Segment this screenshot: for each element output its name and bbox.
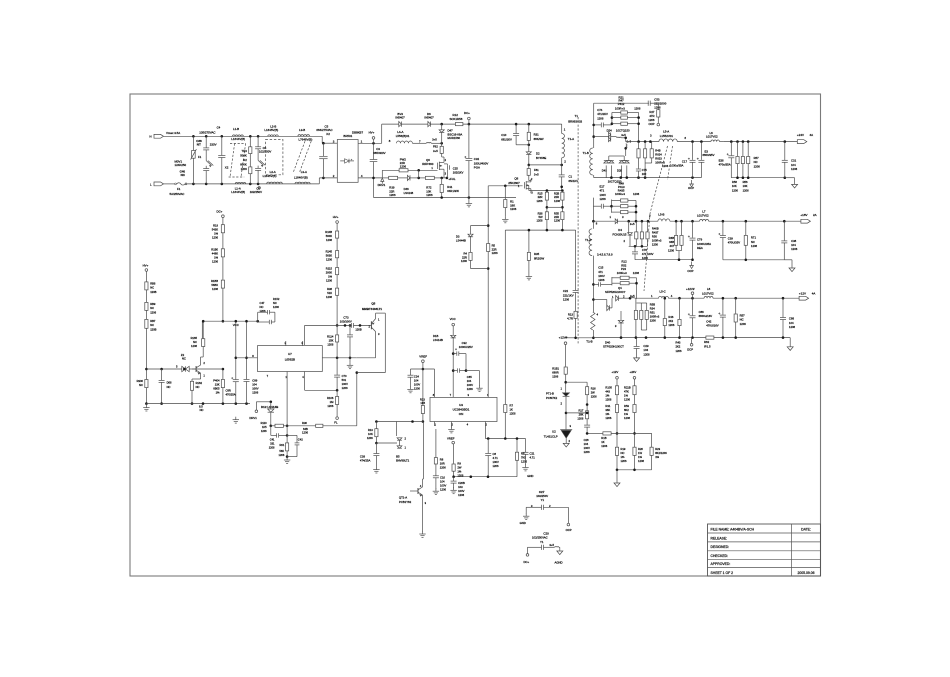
winding T1-B (590, 148, 593, 175)
svg-text:BR501: BR501 (343, 134, 352, 138)
capacitor C74 (601, 123, 603, 128)
wire sense return (505, 229, 575, 231)
node D47 top (440, 123, 443, 126)
wire C39 top (722, 221, 724, 235)
wire (641, 221, 643, 232)
wire pin1 drop (286, 372, 288, 426)
wire P404 bottom (222, 388, 224, 404)
wire (616, 470, 618, 483)
label R19b (212, 224, 219, 240)
label E36 (719, 158, 731, 166)
svg-text:1000u/35A: 1000u/35A (670, 163, 684, 167)
wire (468, 198, 470, 201)
wire (644, 142, 646, 149)
junction (678, 258, 681, 261)
label pins T1-C (597, 252, 613, 256)
svg-text:OCP: OCP (688, 186, 694, 190)
ground bl (284, 457, 290, 463)
wire Q5 emitter down (375, 332, 377, 358)
label C53 (654, 98, 666, 110)
wire C31 bottom (784, 162, 786, 177)
wire (466, 370, 480, 372)
connector N (0, 0, 1, 1)
svg-text:C85: C85 (467, 375, 472, 379)
svg-text:RB9: RB9 (150, 302, 156, 306)
label L3-A part (294, 176, 308, 180)
svg-text:120B: 120B (150, 327, 156, 331)
wire (396, 422, 398, 437)
label 100R+3 (615, 106, 625, 110)
label R68 (668, 236, 674, 253)
inductor L5-B (658, 219, 670, 221)
capacitor C3 (370, 160, 378, 162)
label R36b (326, 287, 332, 299)
svg-text:DC+: DC+ (464, 111, 470, 115)
wire F82 top (441, 143, 443, 146)
pin 2 T1 (564, 160, 566, 164)
wire (647, 221, 649, 232)
junction (235, 357, 238, 360)
label Q6 (426, 158, 430, 162)
svg-text:104: 104 (440, 480, 445, 484)
label L1-B (233, 127, 239, 131)
wire (258, 311, 268, 313)
wire R9 bottom (453, 471, 455, 477)
diode BV3 (399, 122, 402, 127)
wire (634, 254, 636, 260)
svg-text:R6B: R6B (669, 236, 674, 240)
label D43 part (608, 180, 622, 184)
wire (616, 379, 618, 386)
terminal +12V# (564, 342, 567, 345)
resistor R9 (452, 464, 455, 471)
connector N tag (154, 134, 164, 138)
wire (635, 221, 637, 232)
wire bleeder mid (249, 154, 251, 167)
svg-text:R51: R51 (650, 311, 655, 315)
wire R35 bottom (528, 260, 530, 273)
wire (258, 321, 270, 323)
resistor R15 (545, 192, 548, 200)
label C20 Y1 (540, 540, 544, 544)
fusible 3+5 b (626, 144, 627, 148)
svg-text:102/1KV: 102/1KV (453, 171, 464, 175)
OCP arrow 18V (690, 262, 694, 269)
junction (470, 475, 473, 478)
wire D66 top (161, 369, 163, 380)
wire (675, 221, 677, 235)
wire D66 bottom (161, 382, 163, 403)
resistor R023 (650, 149, 653, 158)
wire 18V out (709, 220, 801, 222)
resistor R13A (574, 311, 577, 318)
label R7 (510, 403, 516, 415)
wire (191, 379, 193, 381)
svg-text:36K: 36K (605, 408, 610, 412)
fusible 3+5 d (555, 546, 559, 549)
wire (645, 162, 652, 164)
svg-text:L1644V(B): L1644V(B) (231, 190, 245, 194)
svg-text:NC: NC (196, 385, 200, 389)
wire C32 bottom (468, 161, 470, 198)
svg-text:1206: 1206 (605, 397, 611, 401)
label D24 (607, 128, 613, 132)
junction (504, 437, 507, 440)
label C20 (543, 531, 549, 535)
svg-text:C28: C28 (584, 438, 589, 442)
label R115 (326, 267, 333, 283)
label C70 (342, 374, 348, 390)
resistor R43 (678, 319, 681, 325)
label R17 (577, 409, 583, 421)
wire (422, 478, 425, 480)
svg-text:D12 LS414B: D12 LS414B (261, 405, 279, 409)
wire sense bot L (546, 220, 548, 231)
label Dvcc (433, 334, 443, 342)
label R56 (743, 180, 749, 192)
label R9 (457, 461, 463, 477)
wire U3 out row (485, 438, 525, 440)
svg-text:1206: 1206 (510, 207, 517, 211)
junction (678, 336, 681, 339)
svg-text:R20: R20 (638, 447, 643, 451)
svg-text:1206: 1206 (327, 404, 333, 408)
svg-text:100V: 100V (467, 383, 473, 387)
pin 1 T1 (564, 127, 566, 131)
wire (593, 205, 601, 207)
wire pin2 gnd (450, 422, 452, 428)
wire C3 bottom (373, 162, 375, 198)
junction (592, 337, 595, 340)
wire 24V rail a (626, 141, 659, 143)
diode D4b (628, 233, 633, 235)
terminal VCC U3 (452, 323, 455, 326)
diode Q4b (607, 305, 610, 310)
svg-text:1206: 1206 (633, 192, 640, 196)
label D47 (448, 129, 463, 141)
wire 18V gnd link (723, 259, 784, 261)
wire (625, 148, 627, 156)
svg-text:NC: NC (150, 323, 154, 327)
svg-text:1206: 1206 (273, 305, 279, 309)
svg-text:OCP: OCP (687, 269, 693, 273)
junction (647, 220, 650, 223)
svg-text:DC+: DC+ (524, 560, 530, 564)
label R8 (440, 457, 446, 469)
inductor L8 (704, 296, 713, 298)
junction (730, 140, 733, 143)
junction (336, 389, 339, 392)
label B5 (396, 454, 410, 462)
wire (287, 456, 297, 458)
svg-text:R53: R53 (624, 404, 629, 408)
wire (794, 178, 796, 185)
wire C38 bottom (783, 243, 785, 260)
capacitor C70 (334, 375, 340, 377)
junction (620, 176, 623, 179)
wire (431, 142, 442, 144)
resistor R4 (469, 252, 472, 260)
svg-text:1206: 1206 (191, 344, 197, 348)
wire F81 bottom (528, 175, 530, 180)
svg-text:1206: 1206 (791, 247, 798, 251)
diode D24a (609, 132, 611, 136)
label R42 (400, 157, 407, 168)
resistor R42 (399, 169, 408, 172)
label 1206 d (633, 271, 640, 275)
svg-text:F81: F81 (534, 168, 539, 172)
capacitor C78 (632, 252, 638, 254)
resistor R41 (440, 184, 443, 192)
label DRV1 (378, 183, 386, 187)
label R152 (273, 297, 280, 309)
junction (487, 475, 490, 478)
inductor L2-A (267, 182, 283, 184)
label R21 (619, 95, 625, 99)
label R72 (426, 186, 433, 197)
label R62 (704, 340, 711, 348)
pin 4 (361, 174, 363, 178)
pin 2 EZ1 (549, 504, 551, 508)
wire C21 bottom (525, 454, 527, 465)
svg-text:100R+3: 100R+3 (615, 192, 625, 196)
resistor R31b (615, 405, 618, 413)
svg-text:L7646V(B): L7646V(B) (299, 137, 313, 141)
wire hv chain a (145, 271, 147, 281)
junction (611, 122, 614, 125)
wire (627, 117, 638, 119)
label L7 part (697, 213, 709, 217)
wire 24V gnd link (731, 177, 785, 179)
svg-text:L556(B)01: L556(B)01 (396, 134, 410, 138)
svg-text:1206: 1206 (326, 295, 332, 299)
wire C42 top link (287, 434, 297, 436)
label C75 (642, 168, 647, 176)
svg-text:C75: C75 (642, 168, 647, 172)
label Z2 (181, 353, 185, 357)
label 100R+3 b (615, 192, 625, 196)
label 4A (810, 133, 814, 137)
svg-text:C16: C16 (440, 476, 445, 480)
pin 1 Q4 (612, 295, 614, 299)
svg-text:1K: 1K (601, 440, 604, 444)
svg-text:U7: U7 (288, 352, 292, 356)
svg-text:8R2/3W: 8R2/3W (534, 256, 544, 260)
wire (634, 395, 636, 405)
node R42 out (417, 169, 420, 172)
svg-text:R13: R13 (420, 398, 425, 402)
resistor R437 (640, 232, 643, 239)
wire stack12 right (636, 278, 638, 299)
wire C21 top (525, 439, 527, 453)
terminal FL (336, 417, 339, 420)
pin 2 Q2 (203, 361, 205, 365)
wire R114 bottom (336, 342, 338, 358)
label R15 (537, 192, 543, 203)
junction (592, 283, 595, 286)
junction (191, 402, 194, 405)
junction (411, 420, 414, 423)
label 8.5 (199, 405, 203, 409)
svg-text:LS444B: LS444B (456, 239, 466, 243)
wire T1-B bottom lead (593, 175, 595, 178)
svg-text:102: 102 (642, 172, 647, 176)
wire R165 bottom (202, 347, 204, 358)
wire Q5 c up (375, 313, 377, 319)
wire VCC to pin7 (452, 338, 454, 397)
svg-text:1206: 1206 (654, 106, 661, 110)
wire (612, 211, 621, 213)
wire (470, 260, 472, 268)
wire EZ1 left (526, 506, 541, 508)
svg-text:Y1: Y1 (541, 498, 545, 502)
resistor R165 (202, 339, 205, 347)
resistor R6 (515, 452, 518, 460)
label Q8 part (508, 181, 520, 185)
diode D6 (428, 122, 431, 127)
wire C32 top (468, 124, 470, 158)
svg-text:1206: 1206 (461, 259, 467, 263)
wire (271, 425, 275, 427)
label C28 (584, 438, 590, 454)
junction (680, 220, 683, 223)
label L8 (707, 287, 711, 291)
svg-text:R110: R110 (261, 421, 268, 425)
wire pin4 row (305, 389, 338, 391)
svg-text:R165: R165 (191, 336, 198, 340)
winding T1-A (562, 134, 565, 158)
label HV+ c (333, 215, 339, 219)
wire Q5 base row b (354, 324, 372, 326)
junction (349, 357, 352, 360)
wire aux return (565, 337, 576, 339)
wire (592, 221, 594, 229)
label +12V out (799, 292, 806, 296)
wire 12V rail a (635, 297, 659, 299)
resistor R49 (621, 199, 628, 202)
label L8 part (702, 291, 714, 295)
junction (257, 135, 260, 138)
wire (634, 455, 636, 469)
svg-text:04R1/3W: 04R1/3W (447, 189, 459, 193)
svg-text:R31: R31 (534, 133, 540, 137)
wire sense link (547, 206, 563, 208)
wire C8R column (235, 321, 237, 379)
svg-text:X2: X2 (326, 132, 330, 136)
label C32 (474, 157, 489, 169)
resistor R57 (741, 157, 744, 164)
junction (592, 124, 595, 127)
svg-text:REA: REA (697, 246, 703, 250)
terminal DRV1 b (255, 410, 258, 413)
svg-text:D1B: D1B (433, 334, 439, 338)
svg-text:1206: 1206 (342, 386, 348, 390)
wire QT1 collector (422, 422, 424, 480)
svg-text:BAV99LT1: BAV99LT1 (396, 459, 410, 463)
wire stack18 right (635, 201, 637, 222)
wire C8 top (487, 439, 489, 454)
junction (561, 229, 564, 232)
svg-text:R19: R19 (621, 447, 626, 451)
junction (256, 320, 259, 323)
label EZ1 val (536, 494, 548, 498)
terminal DRV1 arrow (381, 178, 384, 184)
mosfet Q8 25K2607 (524, 179, 531, 191)
svg-text:2005.09.06: 2005.09.06 (798, 571, 815, 575)
wire (612, 205, 621, 207)
svg-text:5W: 5W (538, 215, 542, 219)
wire (629, 277, 636, 279)
junction (745, 220, 748, 223)
label C8 (263, 146, 267, 150)
junction (160, 368, 163, 371)
svg-text:1206: 1206 (326, 258, 332, 262)
label C20 val (532, 535, 548, 539)
wire (434, 177, 441, 179)
svg-text:124K250: 124K250 (175, 163, 187, 167)
ground QT1 (419, 531, 425, 537)
svg-text:1206: 1206 (668, 248, 674, 252)
wire (621, 137, 626, 139)
svg-text:R106: R106 (327, 396, 334, 400)
svg-text:1%: 1% (457, 469, 461, 473)
svg-text:56BK: 56BK (211, 283, 218, 287)
svg-text:1206: 1206 (212, 260, 218, 264)
varistor MOV1 (191, 149, 197, 159)
title sheet (711, 571, 734, 575)
wire FL lead (336, 405, 338, 417)
wire (279, 434, 287, 436)
resistor TR3 (249, 147, 252, 154)
pin 4 L5C (671, 294, 673, 298)
svg-text:100V: 100V (584, 446, 590, 450)
junction (344, 324, 347, 327)
wire (470, 226, 472, 234)
wire (635, 239, 637, 246)
svg-text:T1-A: T1-A (568, 137, 574, 141)
svg-text:FILE NAME: A404BV/A-SCH: FILE NAME: A404BV/A-SCH (711, 527, 755, 531)
svg-text:SHEET 1 OF 2: SHEET 1 OF 2 (711, 571, 734, 575)
wire R8 bottom (435, 464, 437, 476)
junction (691, 176, 694, 179)
capacitor C32b (455, 348, 459, 356)
svg-text:100V: 100V (493, 460, 499, 464)
connector +12V (799, 296, 809, 300)
junction (644, 140, 647, 143)
wire EZ1 right (544, 506, 569, 508)
wire (527, 547, 529, 553)
wire D2 top (528, 145, 530, 152)
core L2 dashed box (266, 140, 283, 175)
label C47 (260, 301, 266, 313)
wire R57 lead b (747, 164, 749, 178)
capacitor C20 (542, 545, 544, 550)
svg-text:R8: R8 (440, 457, 444, 461)
pin 1 Q6 (431, 166, 433, 170)
wire C86 bottom (692, 318, 694, 338)
label R57 (754, 156, 761, 168)
wire into bridge pin2 (319, 177, 337, 179)
svg-text:681/1KV: 681/1KV (501, 138, 512, 142)
ground R1 (502, 216, 508, 222)
label L5-A (663, 129, 669, 133)
wire 24V return (594, 177, 702, 179)
svg-text:X2: X2 (225, 166, 229, 170)
pin 3 L5A (650, 134, 652, 138)
ground U2 (563, 443, 569, 447)
svg-text:1206: 1206 (598, 278, 605, 282)
label E3 val (703, 153, 715, 157)
